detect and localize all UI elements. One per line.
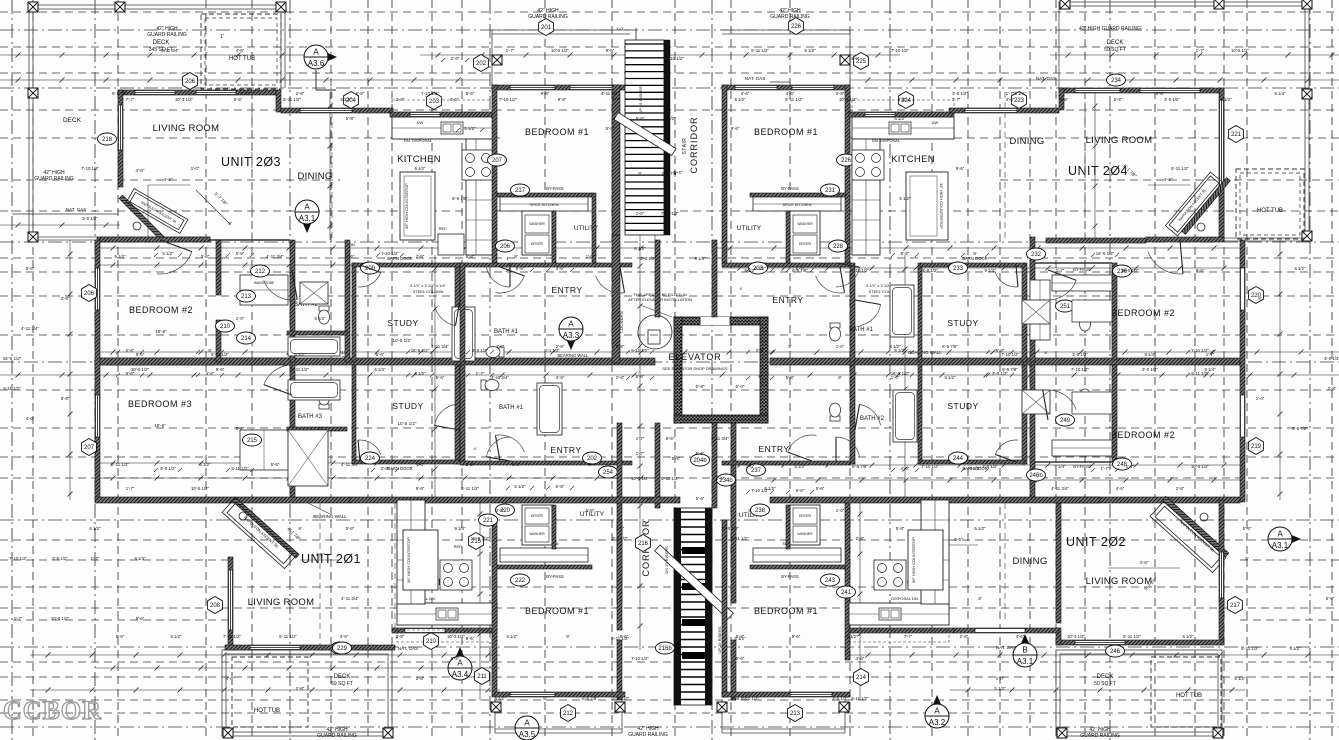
grid bubble 223: [1012, 92, 1027, 109]
svg-text:10'-5 1/2": 10'-5 1/2": [631, 476, 650, 481]
svg-text:UNIT 2Ø3: UNIT 2Ø3: [221, 155, 281, 169]
main bearing wall: [95, 358, 655, 365]
bath/study right cluster: [850, 263, 855, 362]
svg-text:WASHER: WASHER: [529, 222, 545, 226]
svg-text:5'-8": 5'-8": [616, 344, 625, 349]
svg-text:2'-8": 2'-8": [396, 97, 405, 102]
svg-text:DECK: DECK: [63, 117, 82, 124]
svg-text:5'-8": 5'-8": [451, 656, 460, 661]
svg-text:A: A: [1277, 530, 1283, 539]
svg-text:202: 202: [476, 61, 487, 67]
study top-left: [352, 263, 356, 362]
svg-text:DW: DW: [417, 120, 424, 125]
svg-text:16'-5 1/2": 16'-5 1/2": [3, 356, 22, 361]
svg-text:7-10 1/2": 7-10 1/2": [421, 91, 439, 96]
svg-text:5'-6": 5'-6": [126, 348, 135, 353]
svg-text:1'-7": 1'-7": [506, 48, 515, 53]
svg-text:9 1/4": 9 1/4": [984, 268, 996, 273]
svg-text:2'-8": 2'-8": [856, 536, 865, 541]
svg-text:2'-8": 2'-8": [61, 296, 70, 301]
svg-text:DECK: DECK: [153, 40, 170, 46]
svg-text:BARN DOOR: BARN DOOR: [962, 256, 987, 261]
svg-text:2'-8": 2'-8": [451, 56, 460, 61]
svg-text:5 1/2": 5 1/2": [114, 254, 126, 259]
svg-text:BY-PASS: BY-PASS: [781, 574, 799, 579]
svg-text:5 1/2": 5 1/2": [170, 634, 182, 639]
svg-text:4'-6": 4'-6": [346, 254, 355, 259]
grid bubble 221: [1229, 126, 1244, 143]
grid bubble 210: [424, 633, 439, 650]
callout 229: [333, 642, 352, 654]
svg-text:1'-7": 1'-7": [1101, 466, 1110, 471]
unit201 left wall: [228, 557, 233, 647]
svg-text:222: 222: [515, 578, 526, 584]
svg-text:217: 217: [515, 188, 526, 194]
svg-text:6'-5 7/8": 6'-5 7/8": [662, 171, 678, 176]
svg-text:8': 8': [514, 254, 517, 259]
corridor bottom walls: [617, 423, 622, 603]
svg-text:5'-11 1/2": 5'-11 1/2": [283, 97, 301, 102]
svg-text:6 1/2": 6 1/2": [1234, 676, 1246, 681]
closet row bedroom1 right: [750, 193, 845, 197]
svg-text:STAIR: STAIR: [682, 138, 688, 155]
svg-text:UNIT 2Ø1: UNIT 2Ø1: [301, 552, 361, 566]
svg-text:5 1/2": 5 1/2": [294, 352, 306, 357]
svg-text:GUARD RAILING: GUARD RAILING: [770, 14, 810, 20]
callout 238: [751, 504, 770, 516]
deck top-left railing: [29, 5, 285, 9]
svg-text:229: 229: [337, 646, 348, 652]
svg-text:A: A: [524, 719, 530, 728]
deck top-right railing: [1059, 2, 1309, 6]
svg-text:9'-6": 9'-6": [620, 634, 629, 639]
svg-text:4'-11 3/4": 4'-11 3/4": [431, 344, 449, 349]
svg-text:BEDROOM #1: BEDROOM #1: [754, 606, 818, 616]
svg-text:5'-8": 5'-8": [61, 396, 70, 401]
svg-text:4'-11 3/4": 4'-11 3/4": [711, 436, 729, 441]
svg-text:206: 206: [185, 79, 196, 85]
callout 236: [1113, 265, 1132, 277]
svg-text:2'-8": 2'-8": [396, 634, 405, 639]
svg-text:5'-11 1/2": 5'-11 1/2": [1241, 646, 1259, 651]
svg-text:4'-11 3/4": 4'-11 3/4": [21, 326, 39, 331]
svg-text:8': 8': [588, 462, 591, 467]
svg-text:1': 1': [507, 256, 510, 261]
section marker A/A3.6: [316, 48, 337, 66]
svg-text:10'-3 1/2": 10'-3 1/2": [447, 634, 466, 639]
svg-text:9 1/4": 9 1/4": [1014, 91, 1026, 96]
svg-text:5'-8": 5'-8": [512, 462, 521, 467]
svg-text:4'-11 3/4": 4'-11 3/4": [491, 375, 509, 380]
svg-text:1'-0": 1'-0": [236, 316, 245, 321]
unit 203 left wall: [118, 90, 123, 187]
svg-text:1'-0": 1'-0": [996, 676, 1005, 681]
svg-text:3'-0 1/2": 3'-0 1/2": [952, 91, 968, 96]
bath bottom-left: [319, 391, 330, 409]
svg-text:GUARD RAILING: GUARD RAILING: [34, 176, 74, 182]
svg-text:5'-6": 5'-6": [696, 451, 705, 456]
svg-text:3'-0 1/2": 3'-0 1/2": [160, 466, 177, 471]
svg-text:1'-7": 1'-7": [1196, 48, 1205, 53]
svg-text:DINING: DINING: [297, 171, 332, 182]
svg-text:207: 207: [492, 158, 503, 164]
svg-text:4'-6": 4'-6": [856, 656, 865, 661]
range 204: [852, 150, 884, 180]
svg-text:233: 233: [953, 266, 964, 272]
svg-text:16'-5 1/2": 16'-5 1/2": [611, 696, 630, 701]
svg-text:BY-PASS: BY-PASS: [546, 186, 564, 191]
svg-text:50 SQ FT: 50 SQ FT: [1104, 47, 1126, 53]
svg-text:4'-6": 4'-6": [1016, 634, 1025, 639]
svg-text:1'-0": 1'-0": [1256, 396, 1265, 401]
svg-text:7-10 1/2": 7-10 1/2": [751, 488, 769, 493]
svg-text:10'-5 1/2": 10'-5 1/2": [393, 338, 412, 343]
wardrobe boxes right: [1052, 275, 1112, 291]
svg-text:SPICE KITCHEN: SPICE KITCHEN: [529, 203, 558, 207]
bedroom1 left block walls: [492, 85, 632, 90]
svg-text:CCBOR: CCBOR: [3, 696, 102, 725]
callout 244: [949, 452, 968, 464]
svg-text:5 1/2": 5 1/2": [894, 348, 906, 353]
svg-text:5 1/2": 5 1/2": [642, 496, 654, 501]
svg-text:4': 4': [474, 446, 477, 451]
svg-text:8': 8': [978, 596, 981, 601]
svg-text:9'-6": 9'-6": [736, 656, 745, 661]
svg-text:WASHER: WASHER: [797, 222, 813, 226]
unit 204 right wall: [1219, 88, 1224, 240]
svg-text:A: A: [934, 707, 940, 716]
svg-text:BEDROOM #3: BEDROOM #3: [128, 399, 192, 409]
svg-text:1'-7": 1'-7": [126, 486, 135, 491]
svg-text:238: 238: [755, 508, 766, 514]
svg-text:9 1/4": 9 1/4": [694, 256, 706, 261]
svg-text:211: 211: [477, 674, 487, 680]
svg-text:36" HIGH COUNTERTOP: 36" HIGH COUNTERTOP: [406, 537, 411, 583]
svg-text:5'-8": 5'-8": [996, 348, 1005, 353]
callout 237: [747, 464, 766, 476]
svg-text:251: 251: [1060, 304, 1071, 310]
grid bubble 219: [1249, 438, 1264, 455]
svg-text:GUARD RAILING: GUARD RAILING: [1080, 733, 1120, 739]
closet row bedroom1 left: [497, 193, 592, 197]
range 202: [874, 560, 906, 590]
svg-text:8': 8': [1245, 556, 1248, 561]
svg-text:4'-11 3/4": 4'-11 3/4": [601, 91, 619, 96]
callout 228: [829, 240, 848, 252]
svg-text:6'-0": 6'-0": [736, 384, 745, 389]
svg-text:STEEL COLUMN: STEEL COLUMN: [413, 289, 444, 294]
svg-text:216b: 216b: [658, 646, 672, 652]
svg-text:6 1/2": 6 1/2": [634, 246, 646, 251]
svg-text:9'-6": 9'-6": [216, 367, 225, 372]
stair bottom diagonal: [655, 545, 734, 619]
corridor walls near elevator: [655, 240, 660, 317]
svg-text:7'-10 1/2": 7'-10 1/2": [81, 166, 100, 171]
svg-text:LIVING ROOM: LIVING ROOM: [1086, 576, 1153, 587]
svg-text:LOCKERS: LOCKERS: [619, 311, 624, 333]
svg-text:5'-6": 5'-6": [271, 462, 280, 467]
svg-text:SEE ELEVATOR SHOP DRAWINGS: SEE ELEVATOR SHOP DRAWINGS: [662, 366, 727, 371]
svg-text:9'-6": 9'-6": [731, 126, 740, 131]
svg-text:LIVING ROOM: LIVING ROOM: [248, 597, 315, 608]
svg-text:6 1/2": 6 1/2": [414, 166, 426, 171]
svg-text:4'-11 3/4": 4'-11 3/4": [341, 462, 359, 467]
svg-text:5 1/2": 5 1/2": [240, 91, 252, 96]
svg-text:3'-0 1/2": 3'-0 1/2": [992, 371, 1009, 376]
svg-text:1': 1': [220, 34, 224, 40]
svg-text:36" HIGH COUNTERTOP: 36" HIGH COUNTERTOP: [404, 183, 409, 229]
svg-text:1'-7": 1'-7": [636, 451, 645, 456]
unit 204 bottom wall: [1046, 238, 1146, 243]
svg-text:10'-3 1/2": 10'-3 1/2": [175, 97, 194, 102]
svg-text:9'-6": 9'-6": [796, 488, 805, 493]
svg-text:1'-0": 1'-0": [836, 344, 845, 349]
svg-text:5'-11 1/2": 5'-11 1/2": [291, 367, 309, 372]
callout 248: [1113, 458, 1132, 470]
unit202 left wall: [1056, 503, 1061, 623]
svg-text:DRYER: DRYER: [799, 514, 812, 518]
svg-text:204b: 204b: [693, 458, 707, 464]
svg-text:4'-6": 4'-6": [954, 537, 963, 542]
callout 217: [511, 184, 530, 196]
deck top-center-right: [722, 29, 850, 31]
unit 204 fireplace diagonal: [1182, 178, 1231, 235]
svg-text:246: 246: [1110, 649, 1121, 655]
svg-text:A3.1: A3.1: [1272, 541, 1289, 550]
svg-text:246b: 246b: [1029, 473, 1043, 479]
svg-text:9 1/4": 9 1/4": [1054, 464, 1066, 469]
callout 218: [98, 133, 117, 145]
svg-text:DISPOSAL DN.: DISPOSAL DN.: [891, 596, 919, 601]
extra door arcs: [486, 267, 510, 287]
svg-text:UP 19 RISERS: UP 19 RISERS: [638, 86, 643, 113]
svg-text:9'-6": 9'-6": [606, 48, 615, 53]
svg-text:8': 8': [973, 251, 976, 256]
svg-text:6 1/2": 6 1/2": [89, 526, 101, 531]
svg-text:2'-8": 2'-8": [756, 348, 765, 353]
svg-text:3'-0 1/2": 3'-0 1/2": [922, 268, 938, 273]
svg-text:6 1/2": 6 1/2": [414, 371, 426, 376]
svg-text:9'-6": 9'-6": [956, 166, 965, 171]
hot tub top-right: [1236, 169, 1304, 239]
deck top-center-left: [492, 29, 630, 31]
svg-text:1'-7": 1'-7": [14, 616, 23, 621]
svg-text:10'-5 1/2": 10'-5 1/2": [551, 48, 570, 53]
svg-text:4'-6": 4'-6": [716, 476, 725, 481]
utility bottom-right: [790, 505, 820, 545]
svg-text:8': 8': [228, 221, 231, 226]
unit202 bottom walls: [849, 628, 954, 633]
svg-text:2'-8": 2'-8": [416, 676, 425, 681]
svg-text:GUARD RAILING: GUARD RAILING: [147, 32, 187, 38]
svg-text:5'-6": 5'-6": [436, 375, 445, 380]
callout 214: [237, 332, 256, 344]
svg-text:10'-5 1/2": 10'-5 1/2": [1121, 268, 1140, 273]
unit202 fireplace diagonal: [1162, 496, 1229, 557]
svg-text:10'-3 1/2": 10'-3 1/2": [1067, 634, 1086, 639]
elevator shaft: [674, 317, 768, 325]
svg-text:NAT. GAS: NAT. GAS: [398, 646, 418, 651]
kitchen 201 counters: [397, 603, 497, 625]
svg-text:8': 8': [543, 696, 546, 701]
svg-text:5'-11 1/2": 5'-11 1/2": [279, 634, 297, 639]
svg-text:4'-6": 4'-6": [450, 97, 459, 102]
callout 226: [837, 154, 856, 166]
svg-text:1'-0": 1'-0": [836, 508, 845, 513]
svg-text:5-11 1/2": 5-11 1/2": [851, 696, 869, 701]
svg-text:STUDY: STUDY: [392, 401, 423, 411]
callout 251: [1056, 300, 1075, 312]
svg-text:3'-0 1/2": 3'-0 1/2": [832, 696, 848, 701]
study bottom-right: [918, 365, 922, 464]
svg-text:BATH #2: BATH #2: [860, 416, 885, 422]
callout 213: [237, 290, 256, 302]
svg-text:9'-6": 9'-6": [1196, 268, 1205, 273]
svg-text:DRYER: DRYER: [531, 514, 544, 518]
svg-text:A3.4: A3.4: [452, 670, 469, 679]
svg-text:5 1/2": 5 1/2": [162, 251, 174, 256]
kitchen 204 counters: [852, 117, 954, 139]
svg-text:10'-5 1/2": 10'-5 1/2": [721, 526, 740, 531]
callout 222: [511, 574, 530, 586]
deck bottom-right: [1056, 650, 1222, 736]
svg-text:LIVING ROOM: LIVING ROOM: [1086, 135, 1153, 146]
svg-text:6'-5 7/8": 6'-5 7/8": [582, 696, 598, 701]
svg-text:36" HIGH COUNTERTOP: 36" HIGH COUNTERTOP: [939, 183, 944, 229]
svg-text:B: B: [1022, 646, 1027, 655]
svg-text:10'-5 1/2": 10'-5 1/2": [398, 421, 417, 426]
svg-text:5 1/2": 5 1/2": [199, 462, 211, 467]
svg-text:5'-4": 5'-4": [672, 456, 681, 461]
grid bubble 207: [82, 439, 97, 456]
svg-text:DINING: DINING: [1009, 136, 1044, 147]
svg-text:5-11 1/2": 5-11 1/2": [631, 348, 649, 353]
svg-text:6'-5 7/8": 6'-5 7/8": [452, 196, 468, 201]
svg-text:5-11 1/2": 5-11 1/2": [731, 536, 749, 541]
callout 212: [251, 265, 270, 277]
svg-text:10'-3 1/2": 10'-3 1/2": [839, 97, 858, 102]
svg-text:15'-6": 15'-6": [155, 329, 167, 334]
unit201 bottom wall: [225, 645, 395, 650]
unit201 fireplace diagonal: [233, 498, 300, 559]
svg-text:7'-10 1/2": 7'-10 1/2": [1071, 367, 1090, 372]
svg-text:5'-6": 5'-6": [816, 486, 825, 491]
svg-text:4'-11 3/4": 4'-11 3/4": [341, 596, 359, 601]
svg-text:5'-6": 5'-6": [376, 352, 385, 357]
callout 245: [879, 572, 898, 584]
svg-text:2'-8": 2'-8": [556, 344, 565, 349]
svg-text:1'-7": 1'-7": [636, 436, 645, 441]
svg-text:16'-5 1/2": 16'-5 1/2": [471, 536, 490, 541]
svg-text:226: 226: [841, 158, 852, 164]
bedroom1 right block walls: [722, 85, 850, 90]
svg-text:5'-8": 5'-8": [786, 375, 795, 380]
svg-text:212: 212: [563, 711, 574, 717]
svg-text:7-10 1/2": 7-10 1/2": [1191, 348, 1209, 353]
svg-text:6'-5 7/8": 6'-5 7/8": [112, 91, 128, 96]
svg-text:ENTRY: ENTRY: [758, 444, 789, 454]
svg-text:9'-6": 9'-6": [136, 352, 145, 357]
svg-text:UTILITY: UTILITY: [737, 225, 762, 232]
svg-text:2'-8": 2'-8": [1328, 386, 1337, 391]
svg-text:5 1/2": 5 1/2": [804, 48, 816, 53]
svg-text:221: 221: [1231, 132, 1242, 138]
callout 234b: [717, 474, 736, 486]
svg-text:BY-PASS: BY-PASS: [1073, 464, 1091, 469]
svg-text:4'-6": 4'-6": [236, 48, 245, 53]
svg-text:5'-6": 5'-6": [201, 254, 210, 259]
svg-text:216: 216: [638, 541, 649, 547]
svg-text:237: 237: [751, 468, 762, 474]
svg-text:217: 217: [1230, 603, 1241, 609]
grid bubble 226: [789, 18, 804, 35]
callout 231: [821, 184, 840, 196]
svg-text:WASHER: WASHER: [529, 532, 545, 536]
svg-text:5'-8": 5'-8": [586, 508, 595, 513]
svg-text:4'-6": 4'-6": [901, 466, 910, 471]
svg-text:DN. DISPOSAL: DN. DISPOSAL: [872, 138, 901, 143]
svg-text:6 1/2": 6 1/2": [664, 116, 676, 121]
svg-text:5 1/2": 5 1/2": [974, 526, 986, 531]
svg-text:4'-6": 4'-6": [851, 56, 860, 61]
svg-text:A: A: [568, 320, 574, 329]
unit 203 bottom-left wall: [97, 237, 210, 242]
svg-text:4'-11 3/4": 4'-11 3/4": [1051, 486, 1069, 491]
svg-text:2'-8": 2'-8": [960, 634, 969, 639]
svg-text:224: 224: [365, 456, 376, 462]
svg-text:HOT TUB: HOT TUB: [1257, 208, 1283, 214]
svg-text:9'-6": 9'-6": [136, 616, 145, 621]
svg-text:2'-8": 2'-8": [416, 254, 425, 259]
svg-text:10'-5 1/2": 10'-5 1/2": [1231, 48, 1250, 53]
svg-text:9'-6": 9'-6": [666, 436, 675, 441]
svg-text:BEARING WALL: BEARING WALL: [313, 514, 347, 519]
bedroom1 bottom-right block: [722, 520, 727, 697]
svg-text:249: 249: [1060, 418, 1071, 424]
svg-text:GUARD RAILING: GUARD RAILING: [628, 732, 668, 738]
deck bottom-left: [222, 650, 392, 736]
callout 249: [1056, 414, 1075, 426]
unit201 upper bearing wall: [350, 497, 680, 503]
svg-text:3'-0 1/2": 3'-0 1/2": [1142, 367, 1158, 372]
study top-right: [918, 263, 922, 362]
svg-text:2'-8": 2'-8": [616, 375, 625, 380]
callout 221: [479, 514, 498, 526]
svg-text:4'-6": 4'-6": [741, 91, 750, 96]
extra fixtures left column (near bearing): [288, 430, 328, 486]
svg-text:4'-6": 4'-6": [786, 91, 795, 96]
kitchen 202 counters: [849, 603, 949, 625]
svg-text:243: 243: [825, 578, 836, 584]
svg-text:5 1/2": 5 1/2": [994, 686, 1006, 691]
svg-text:A3.6: A3.6: [308, 59, 325, 68]
bed3 closet: [240, 430, 288, 470]
svg-text:4'-6": 4'-6": [316, 552, 325, 557]
svg-text:6'-5 7/8": 6'-5 7/8": [942, 344, 958, 349]
svg-text:DW: DW: [932, 120, 939, 125]
svg-text:UNIT 2Ø4: UNIT 2Ø4: [1068, 164, 1128, 178]
svg-text:DN 19 RISERS: DN 19 RISERS: [664, 546, 669, 574]
svg-text:36" HIGH COUNTERTOP: 36" HIGH COUNTERTOP: [911, 537, 916, 583]
svg-text:241: 241: [841, 590, 852, 596]
svg-text:5'-6": 5'-6": [901, 251, 910, 256]
svg-text:CORRIDOR: CORRIDOR: [689, 117, 699, 174]
svg-text:210: 210: [426, 639, 437, 645]
svg-text:A3.1: A3.1: [299, 214, 316, 223]
svg-text:9'-6": 9'-6": [116, 634, 125, 639]
svg-text:7'-7": 7'-7": [126, 97, 135, 102]
unit 204 kitchen top wall: [849, 112, 954, 117]
